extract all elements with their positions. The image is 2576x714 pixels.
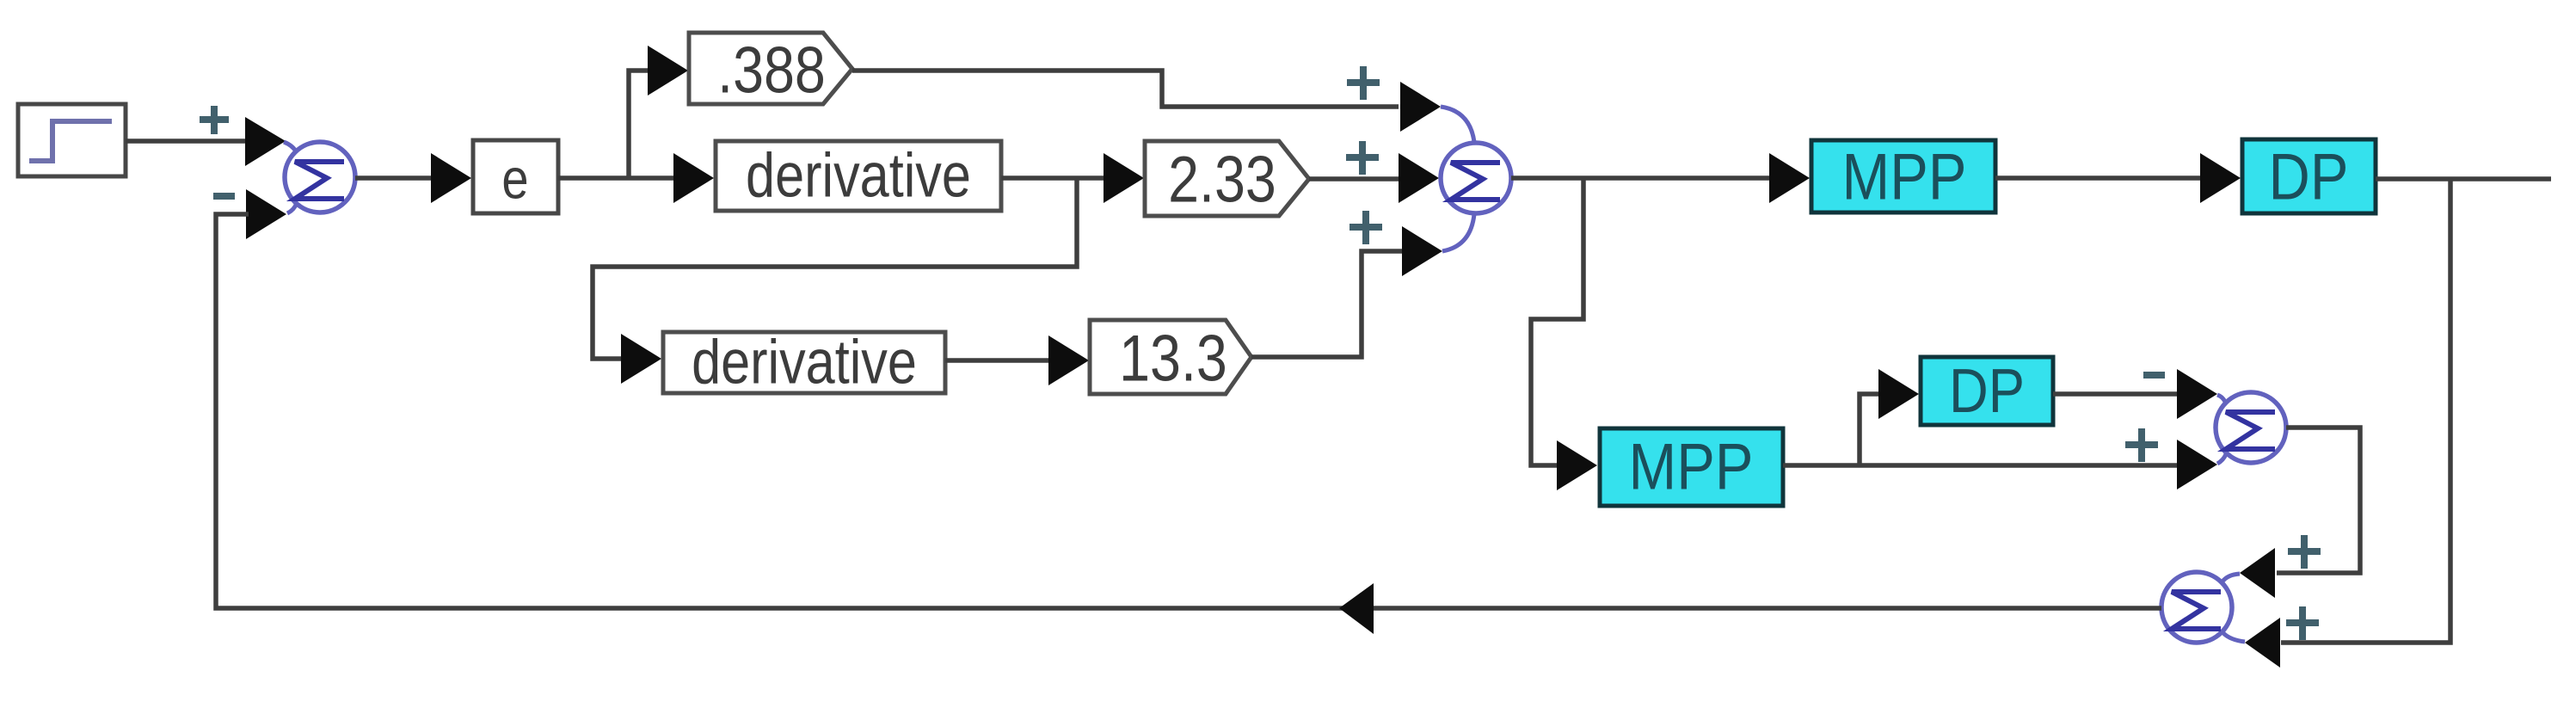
wire derivative D1 to gain 2.33	[1001, 175, 1104, 181]
wire sum S1 to e block	[355, 175, 433, 181]
sum S2	[1441, 107, 1511, 251]
arrowhead into gain 13.3	[1048, 335, 1089, 385]
wire MPP upper to DP upper	[1995, 175, 2201, 181]
plus label sum S2 input 1	[1347, 66, 1380, 100]
wire step to sum S1	[126, 138, 246, 144]
arrowhead into sum S3 bottom	[2177, 440, 2217, 489]
MPP block upper	[1811, 140, 1995, 213]
arrowhead into DP upper	[2200, 153, 2241, 203]
svg-text:13.3: 13.3	[1119, 321, 1227, 394]
arrowhead into derivative D1	[673, 153, 714, 203]
arrowhead into sum S2 bottom	[1402, 226, 1442, 276]
svg-text:DP: DP	[2269, 141, 2349, 214]
arrowhead into sum S4 bottom	[2245, 618, 2280, 668]
arrowhead into sum S1 plus	[245, 117, 286, 166]
wire gain .388 to sum S2 top	[852, 71, 1399, 107]
plus label sum S4 input 1	[2288, 535, 2321, 569]
derivative block D2	[663, 329, 945, 397]
DP block lower	[1921, 357, 2053, 426]
plus label sum S1 input 1	[200, 106, 229, 134]
plus label sum S4 input 2	[2286, 606, 2319, 640]
arrowhead into MPP upper	[1769, 153, 1810, 203]
plus label sum S2 input 2	[1346, 141, 1379, 175]
wire MPP lower to sum S3 bottom	[1783, 463, 2178, 468]
arrowhead into gain 2.33	[1104, 153, 1144, 203]
DP block upper	[2242, 139, 2376, 213]
wire DP lower to sum S3 top	[2053, 391, 2178, 397]
arrowhead on feedback wire	[1339, 583, 1374, 634]
wire branch down to derivative D2	[593, 178, 1077, 359]
wire derivative D2 to gain 13.3	[945, 358, 1050, 363]
arrowhead into sum S4 top	[2240, 548, 2275, 598]
wire e block to derivative D1	[558, 175, 676, 181]
wire gain 13.3 to sum S2 bottom	[1251, 251, 1403, 357]
sum S4	[2161, 572, 2245, 643]
svg-text:.388: .388	[717, 33, 826, 106]
sum S1	[284, 142, 355, 213]
wire sum S3 to sum S4 top	[2277, 428, 2360, 573]
plus label sum S3 input 2	[2125, 428, 2158, 462]
step source block	[18, 104, 126, 176]
arrowhead into gain .388	[648, 46, 688, 95]
svg-text:MPP: MPP	[1842, 141, 1967, 214]
derivative block D1	[716, 141, 1001, 211]
e block	[473, 140, 558, 213]
plus label sum S2 input 3	[1349, 211, 1382, 244]
minus label sum S3 input 1	[2143, 372, 2165, 379]
arrowhead into DP lower	[1878, 369, 1919, 419]
gain block 2.33	[1145, 141, 1309, 216]
wire feedback right branch down to sum S4 bottom	[2281, 179, 2450, 643]
wire feedback sum S4 to sum S1 minus	[216, 214, 2161, 608]
svg-text:MPP: MPP	[1629, 431, 1754, 504]
wire DP upper to output	[2376, 176, 2551, 182]
MPP block lower	[1600, 428, 1783, 506]
minus label sum S1 input 2	[213, 193, 235, 200]
arrowhead into MPP lower	[1557, 440, 1597, 490]
arrowhead into sum S2 top	[1400, 82, 1441, 132]
svg-text:derivative: derivative	[692, 329, 917, 397]
wire branch up to gain .388	[629, 71, 649, 178]
gain block 13.3	[1090, 320, 1251, 395]
gain block .388	[689, 33, 852, 107]
svg-text:2.33: 2.33	[1168, 142, 1276, 215]
wire branch up to DP lower	[1860, 394, 1882, 465]
svg-text:e: e	[501, 147, 528, 210]
arrowhead into sum S3 top	[2177, 369, 2217, 419]
arrowhead into sum S1 minus	[246, 189, 286, 239]
wire branch down to MPP lower	[1531, 178, 1583, 465]
sum S3	[2216, 392, 2286, 464]
arrowhead into e block	[431, 153, 471, 203]
wire sum S2 to MPP upper	[1511, 175, 1771, 181]
wire gain 2.33 to sum S2 middle	[1309, 176, 1399, 182]
svg-text:DP: DP	[1949, 357, 2025, 426]
arrowhead into sum S2 middle	[1399, 153, 1439, 203]
svg-text:derivative: derivative	[746, 142, 971, 211]
arrowhead into derivative D2	[621, 334, 661, 384]
